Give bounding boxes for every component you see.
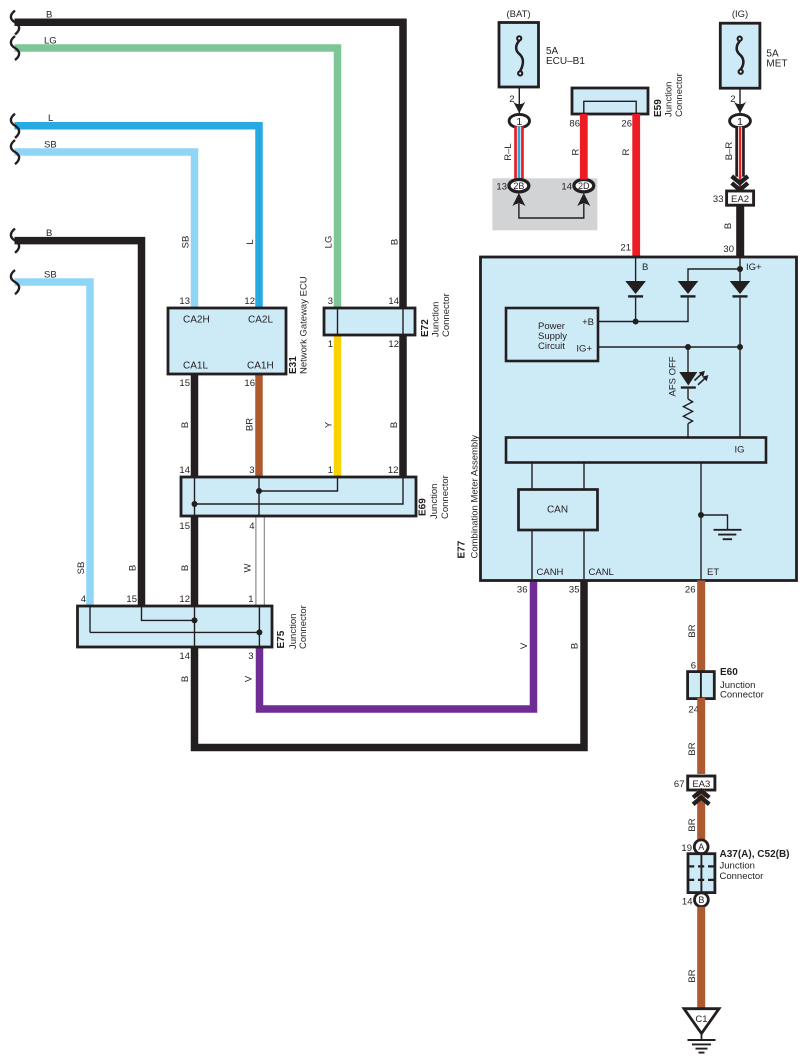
svg-text:R–L: R–L <box>503 143 514 160</box>
svg-text:CANH: CANH <box>537 567 564 578</box>
wire B-R striped <box>735 127 745 177</box>
svg-text:B: B <box>180 422 191 428</box>
wire W E69 pin4 to E75 pin1 <box>256 516 264 606</box>
arrow up into 2D <box>577 193 590 206</box>
node B pin21 lead <box>635 258 637 281</box>
svg-text:12: 12 <box>244 296 255 307</box>
svg-text:Junction: Junction <box>429 484 440 519</box>
wire +B rail to D2 <box>598 298 688 322</box>
svg-text:B: B <box>570 643 581 649</box>
svg-text:6: 6 <box>691 661 696 672</box>
wire D1 cathode to +B rail <box>635 298 637 322</box>
junction connector A37(A) C52(B) <box>688 854 715 893</box>
svg-text:1: 1 <box>328 465 333 476</box>
svg-text:1: 1 <box>516 116 522 128</box>
ECU E31 Network Gateway ECU <box>168 308 286 374</box>
break squiggle wire SB lower <box>11 270 19 294</box>
svg-text:1: 1 <box>328 339 333 350</box>
junction dot IG+ rail at D3 <box>737 344 743 350</box>
svg-text:E69: E69 <box>418 498 429 516</box>
svg-text:V: V <box>244 675 255 682</box>
svg-text:E31: E31 <box>288 356 299 374</box>
svg-text:3: 3 <box>248 651 253 662</box>
svg-text:SB: SB <box>44 139 57 150</box>
svg-text:35: 35 <box>569 585 580 596</box>
wire B E31 pin15 to E69 pin14 <box>191 374 199 477</box>
svg-text:Junction: Junction <box>431 302 442 337</box>
svg-text:14: 14 <box>179 651 190 662</box>
arrow into connector 1 BAT <box>513 102 525 114</box>
svg-text:ET: ET <box>707 567 719 578</box>
connector oval 2D <box>574 180 594 192</box>
svg-text:B–R: B–R <box>724 142 735 161</box>
RIGHT-SIDE <box>492 9 787 257</box>
chevron break EA2 <box>732 176 748 190</box>
ground C1 <box>684 1009 719 1053</box>
wire B E69 pin15 to E75 pin12 <box>191 516 199 606</box>
svg-text:Connector: Connector <box>440 475 451 519</box>
wire D3 cathode down <box>739 298 741 438</box>
svg-text:26: 26 <box>621 119 632 130</box>
connector circle B <box>695 893 709 907</box>
svg-text:2: 2 <box>730 94 735 105</box>
svg-text:CA1H: CA1H <box>247 361 274 372</box>
wire LG horizontal to E72 pin 3 <box>15 48 338 308</box>
svg-text:BR: BR <box>687 969 698 982</box>
E77-ASSEMBLY <box>457 257 797 596</box>
svg-text:E75: E75 <box>276 630 287 648</box>
svg-text:BR: BR <box>245 418 256 431</box>
svg-text:Combination Meter Assembly: Combination Meter Assembly <box>470 435 481 559</box>
connector EA3 <box>688 776 715 790</box>
connector oval 2B <box>509 180 529 192</box>
node IG+ pin30 lead <box>739 258 741 281</box>
svg-text:(IG): (IG) <box>732 9 748 20</box>
svg-text:LG: LG <box>324 236 335 249</box>
svg-text:4: 4 <box>249 521 254 532</box>
wire bar to CAN left <box>531 463 533 490</box>
svg-text:E60: E60 <box>720 667 738 678</box>
svg-text:13: 13 <box>496 182 507 193</box>
svg-text:Circuit: Circuit <box>538 341 565 352</box>
fuse 5A MET (IG) <box>720 9 787 88</box>
connector EA2 <box>727 191 754 205</box>
svg-text:CANL: CANL <box>589 567 614 578</box>
wire BR E77 pin26 to E60 <box>697 581 705 673</box>
CONNECTOR-BOXES <box>78 276 453 662</box>
svg-text:13: 13 <box>179 296 190 307</box>
wire BR EA3 to A37 <box>697 790 705 841</box>
junction dot +B rail <box>633 319 639 325</box>
svg-text:LG: LG <box>44 36 57 47</box>
svg-text:36: 36 <box>517 585 528 596</box>
wire resistor to IG bar <box>687 424 689 438</box>
internal ground <box>701 515 742 539</box>
wire ET from IG bar <box>700 463 702 580</box>
IG bus bar <box>506 438 766 463</box>
connector oval 1 IG <box>730 114 751 127</box>
svg-text:CAN: CAN <box>547 505 568 516</box>
svg-text:CA2L: CA2L <box>248 315 273 326</box>
svg-text:B: B <box>389 422 400 428</box>
wire BR E60 to EA3 <box>697 698 705 774</box>
wire IG+ to diode D2 <box>688 269 740 281</box>
svg-text:SB: SB <box>181 236 192 249</box>
svg-text:12: 12 <box>179 594 190 605</box>
svg-text:L: L <box>245 239 256 244</box>
wire fuse BAT to connector 1 <box>518 87 520 114</box>
svg-text:Junction: Junction <box>664 82 675 117</box>
svg-text:C1: C1 <box>695 1014 707 1025</box>
svg-text:12: 12 <box>388 339 399 350</box>
svg-text:B: B <box>180 565 191 571</box>
wire B horizontal long to E75 pin 15 <box>15 241 142 606</box>
svg-text:2B: 2B <box>513 181 524 191</box>
svg-text:14: 14 <box>682 897 693 908</box>
svg-text:SB: SB <box>76 562 87 575</box>
svg-text:AFS OFF: AFS OFF <box>668 356 679 396</box>
WIRES-TOP-LEFT <box>11 10 584 748</box>
LED AFS OFF <box>679 371 708 389</box>
svg-text:BR: BR <box>687 818 698 831</box>
svg-text:A: A <box>698 842 704 852</box>
wire BR to ground C1 <box>697 907 705 1009</box>
wire R-L striped <box>514 126 524 179</box>
svg-text:67: 67 <box>674 779 685 790</box>
svg-text:R: R <box>621 148 632 155</box>
svg-text:W: W <box>243 563 254 572</box>
wire B E72 pin12 to E69 pin12 <box>399 335 407 477</box>
svg-text:B: B <box>128 565 139 571</box>
svg-text:1: 1 <box>248 594 253 605</box>
svg-text:B: B <box>390 239 401 245</box>
svg-text:14: 14 <box>561 182 572 193</box>
break squiggle wire B <box>11 11 19 35</box>
svg-text:15: 15 <box>126 594 137 605</box>
svg-text:Junction: Junction <box>720 861 755 872</box>
junction connector E60 <box>688 672 715 699</box>
wire R E59 pin86 to 2D <box>580 114 588 180</box>
connector circle A <box>694 840 708 854</box>
diode D2 <box>678 281 699 298</box>
wire fuse IG to connector 1 <box>739 88 741 114</box>
wire to LED <box>687 347 689 372</box>
break squiggle wire B lower <box>11 229 19 253</box>
wire SB horizontal lower to E75 pin 4 <box>15 282 91 606</box>
svg-text:L: L <box>48 113 53 124</box>
wire B top horizontal to E72 pin 14 <box>15 22 404 308</box>
svg-text:Connector: Connector <box>441 293 452 337</box>
wire bar to CAN right <box>583 463 585 490</box>
svg-text:1: 1 <box>737 116 743 128</box>
wire BR E31 pin16 to E69 pin3 <box>255 374 263 477</box>
svg-text:+B: +B <box>582 317 594 328</box>
wire L horizontal to E31 pin 12 <box>15 126 260 308</box>
link wire 2B to 2D <box>519 204 584 218</box>
svg-text:B: B <box>46 228 52 239</box>
power supply circuit box <box>506 308 598 361</box>
svg-text:12: 12 <box>388 465 399 476</box>
svg-text:33: 33 <box>713 194 724 205</box>
junction dot ET <box>698 512 704 518</box>
fuse 5A ECU-B1 (BAT) <box>499 9 585 87</box>
svg-text:21: 21 <box>620 243 631 254</box>
svg-text:14: 14 <box>179 465 190 476</box>
combination meter E77 box <box>481 257 797 581</box>
junction dot IG+ <box>737 266 743 272</box>
svg-text:E77: E77 <box>457 540 468 558</box>
break squiggle wire LG <box>11 36 19 60</box>
svg-text:Network Gateway ECU: Network Gateway ECU <box>299 276 310 374</box>
junction connector E59 <box>572 88 648 114</box>
svg-text:B: B <box>698 895 704 905</box>
svg-text:Connector: Connector <box>298 605 309 649</box>
wire R E59 pin26 to E77 pin21 <box>632 114 640 257</box>
svg-text:BR: BR <box>687 624 698 637</box>
svg-text:3: 3 <box>249 465 254 476</box>
BROWN-CHAIN <box>674 581 790 1053</box>
wire V E75 pin3 routed to E77 pin36 <box>260 581 534 710</box>
svg-text:A37(A), C52(B): A37(A), C52(B) <box>720 849 790 860</box>
svg-text:R: R <box>571 148 582 155</box>
wire B E75 pin14 routed to E77 pin35 <box>195 581 585 748</box>
svg-text:2: 2 <box>509 94 514 105</box>
svg-text:Connector: Connector <box>674 73 685 117</box>
diode D3 <box>730 281 751 298</box>
svg-text:IG+: IG+ <box>746 262 762 273</box>
svg-text:86: 86 <box>569 119 580 130</box>
svg-text:B: B <box>46 10 52 21</box>
shield gray panel <box>492 178 597 230</box>
svg-text:15: 15 <box>179 378 190 389</box>
svg-text:(BAT): (BAT) <box>506 9 530 20</box>
arrow up into 2B <box>512 193 525 206</box>
red stripe behind chevrons <box>739 175 742 191</box>
wire SB horizontal to E31 pin 13 <box>15 152 195 308</box>
wire CANH <box>531 530 533 579</box>
wire Y E72 pin1 to E69 pin1 <box>334 335 342 477</box>
svg-text:16: 16 <box>244 378 255 389</box>
svg-text:E72: E72 <box>420 319 431 337</box>
svg-text:30: 30 <box>723 244 734 255</box>
break squiggle wire SB <box>11 140 19 164</box>
junction connector E75 <box>78 606 273 647</box>
diode D1 <box>625 281 646 298</box>
wire CANL <box>583 530 585 579</box>
wire B EA2 to E77 pin30 <box>736 205 744 257</box>
svg-text:ECU–B1: ECU–B1 <box>546 56 585 67</box>
svg-text:E59: E59 <box>653 99 664 117</box>
svg-text:BR: BR <box>687 742 698 755</box>
svg-text:EA2: EA2 <box>731 194 749 205</box>
svg-text:V: V <box>519 642 530 649</box>
resistor <box>683 399 692 424</box>
svg-text:B: B <box>180 676 191 682</box>
svg-text:14: 14 <box>388 296 399 307</box>
svg-text:15: 15 <box>179 521 190 532</box>
wire LED to resistor <box>687 389 689 399</box>
chevron break EA3 <box>693 791 709 805</box>
junction dot IG+ rail at LED <box>685 344 691 350</box>
svg-text:26: 26 <box>685 585 696 596</box>
svg-text:3: 3 <box>328 296 333 307</box>
break squiggle wire L <box>11 114 19 138</box>
junction connector E72 <box>324 308 415 335</box>
svg-text:B: B <box>642 262 648 273</box>
svg-text:IG+: IG+ <box>576 344 592 355</box>
svg-text:Y: Y <box>324 421 335 428</box>
wire IG+ rail <box>598 346 740 348</box>
arrow into connector 1 IG <box>734 102 746 114</box>
svg-text:B: B <box>723 223 734 229</box>
CAN box <box>519 490 598 531</box>
svg-text:CA1L: CA1L <box>183 361 208 372</box>
svg-text:Connector: Connector <box>720 871 764 882</box>
svg-text:CA2H: CA2H <box>183 315 210 326</box>
junction connector E69 <box>181 477 416 516</box>
connector oval 1 BAT <box>509 114 529 127</box>
svg-text:2D: 2D <box>578 181 590 191</box>
svg-text:Connector: Connector <box>720 690 764 701</box>
svg-text:MET: MET <box>766 59 787 70</box>
svg-text:SB: SB <box>44 269 57 280</box>
svg-text:IG: IG <box>734 445 744 456</box>
svg-text:4: 4 <box>81 594 86 605</box>
